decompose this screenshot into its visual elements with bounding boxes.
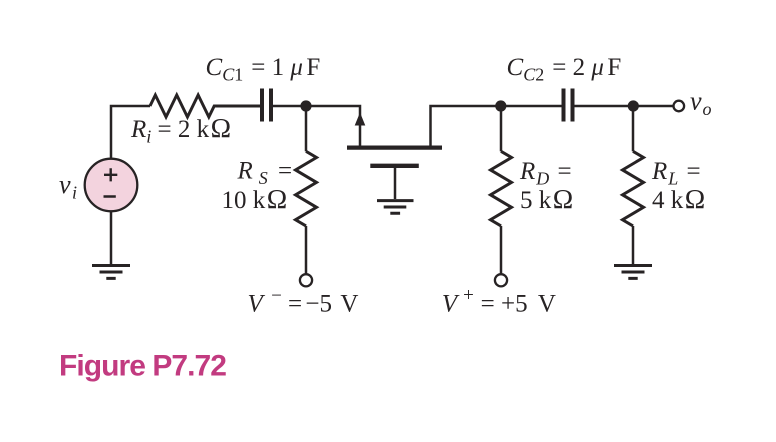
svg-text:V+ = +5 V: V+ = +5 V bbox=[442, 285, 556, 318]
svg-text:5 kΩ: 5 kΩ bbox=[520, 183, 573, 214]
svg-text:4 kΩ: 4 kΩ bbox=[652, 183, 705, 214]
svg-text:10 kΩ: 10 kΩ bbox=[222, 183, 288, 214]
svg-text:Ri = 2 kΩ: Ri = 2 kΩ bbox=[130, 112, 231, 147]
svg-text:vo: vo bbox=[690, 87, 712, 120]
svg-text:CC2 = 2 μF: CC2 = 2 μF bbox=[507, 54, 622, 85]
svg-text:vi: vi bbox=[59, 170, 77, 203]
svg-text:CC1 = 1 μF: CC1 = 1 μF bbox=[206, 54, 321, 85]
svg-text:Figure P7.72: Figure P7.72 bbox=[59, 350, 226, 383]
svg-text:V− = −5 V: V− = −5 V bbox=[248, 286, 359, 318]
